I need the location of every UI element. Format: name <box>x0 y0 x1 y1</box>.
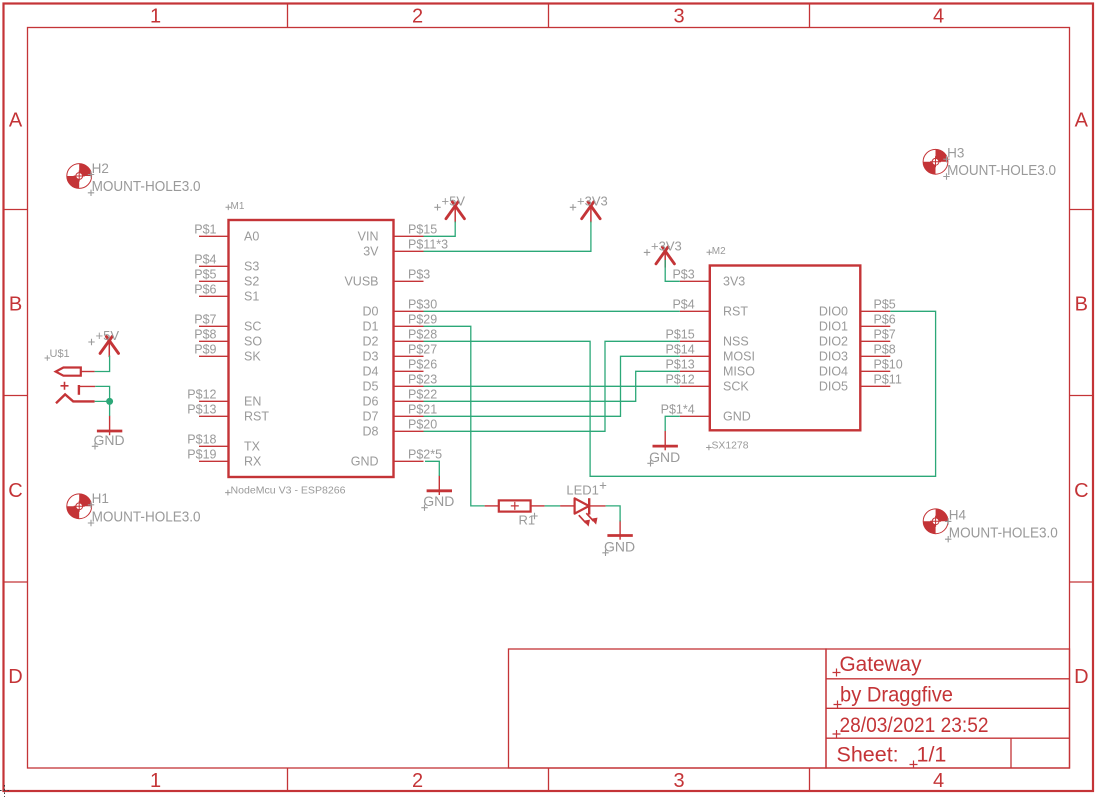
M2 pin SCK (P$12) <box>680 385 710 387</box>
mount hole H4 symbol <box>923 509 948 534</box>
svg-text:P$6: P$6 <box>874 313 896 327</box>
M2 pin MISO (P$13) <box>680 370 710 372</box>
svg-text:P$6: P$6 <box>194 283 216 297</box>
module M1 NodeMcu body <box>229 220 394 477</box>
power symbol +3V3 near M2 3V3 <box>656 247 674 264</box>
svg-text:P$9: P$9 <box>194 343 216 357</box>
svg-text:SO: SO <box>244 335 262 349</box>
svg-text:P$3: P$3 <box>672 268 694 282</box>
svg-text:D4: D4 <box>363 365 379 379</box>
wire M2 3V3 to +3V3 <box>665 260 680 281</box>
M2 pin DIO1 (P$6) <box>860 325 890 327</box>
svg-text:P$13: P$13 <box>187 403 216 417</box>
svg-text:DIO3: DIO3 <box>819 350 848 364</box>
M1 pin S3 (P$4) <box>199 265 229 267</box>
wire M1 D7 to M2 MOSI <box>424 356 680 416</box>
svg-text:P$21: P$21 <box>408 403 437 417</box>
LED1 anode pin stub <box>560 505 575 507</box>
svg-text:P$12: P$12 <box>665 373 694 387</box>
svg-text:P$14: P$14 <box>665 343 694 357</box>
R1 right pin stub <box>531 505 545 507</box>
svg-text:DIO1: DIO1 <box>819 320 848 334</box>
svg-text:RX: RX <box>244 455 262 469</box>
svg-text:RST: RST <box>723 305 748 319</box>
svg-text:3: 3 <box>673 6 684 28</box>
svg-text:GND: GND <box>351 455 379 469</box>
M1 pin S2 (P$5) <box>199 280 229 282</box>
M2 pin GND (P$1*4) <box>680 415 710 417</box>
svg-text:C: C <box>1074 480 1088 502</box>
svg-text:+5V: +5V <box>442 193 466 208</box>
svg-text:B: B <box>9 294 22 316</box>
svg-text:H1: H1 <box>92 491 109 506</box>
svg-text:P$8: P$8 <box>874 343 896 357</box>
svg-text:2: 2 <box>412 6 423 28</box>
svg-text:P$11*3: P$11*3 <box>408 238 448 252</box>
wire M1 D8 to M2 NSS <box>424 341 680 431</box>
svg-text:P$8: P$8 <box>194 328 216 342</box>
svg-text:P$7: P$7 <box>874 328 896 342</box>
M2 pin RST (P$4) <box>680 310 710 312</box>
power symbol +5V near connector U$1 <box>100 337 118 354</box>
M2 pin 3V3 (P$3) <box>680 280 710 282</box>
frame column ticks top <box>287 4 289 28</box>
svg-text:D8: D8 <box>363 425 379 439</box>
svg-text:MISO: MISO <box>723 365 755 379</box>
svg-text:P$3: P$3 <box>408 268 430 282</box>
wire +3V3 to M1 3V <box>424 222 591 252</box>
svg-text:DIO4: DIO4 <box>819 365 848 379</box>
title text Gateway <box>833 669 841 677</box>
LED1 cathode bar <box>588 498 590 514</box>
svg-text:P$1: P$1 <box>194 223 216 237</box>
wire M1 D5 to M2 SCK <box>424 385 680 387</box>
M1 pin D6 (P$22) <box>394 400 424 402</box>
svg-text:P$23: P$23 <box>408 373 437 387</box>
M1 pin D5 (P$23) <box>394 385 424 387</box>
svg-text:D2: D2 <box>363 335 379 349</box>
wire M2 GND pin to ground <box>665 416 680 431</box>
M1 pin VIN (P$15) <box>394 235 424 237</box>
svg-text:DIO2: DIO2 <box>819 335 848 349</box>
svg-text:3: 3 <box>673 770 684 792</box>
title block row line 1 <box>826 678 1070 680</box>
wire M1 D0 to M2 RST <box>424 310 680 312</box>
svg-text:GND: GND <box>723 410 751 424</box>
M1 pin RST (P$13) <box>199 415 229 417</box>
mount hole H2 symbol <box>67 164 92 189</box>
ground symbol below M2 GND pin <box>664 431 666 451</box>
power symbol +3V3 near M1 3V <box>582 202 600 219</box>
svg-text:SC: SC <box>244 320 261 334</box>
U$1 tip pin stub <box>81 371 95 373</box>
M1 pin EN (P$12) <box>199 400 229 402</box>
svg-text:+5V: +5V <box>96 328 120 343</box>
svg-text:P$15: P$15 <box>665 328 694 342</box>
svg-text:H4: H4 <box>949 508 967 523</box>
svg-text:D1: D1 <box>363 320 379 334</box>
frame row ticks left <box>4 209 28 211</box>
svg-text:B: B <box>1075 294 1088 316</box>
svg-text:S3: S3 <box>244 260 259 274</box>
ground symbol below M1 GND pin <box>438 476 440 496</box>
svg-text:TX: TX <box>244 440 261 454</box>
svg-text:U$1: U$1 <box>50 348 70 360</box>
LED1 diode triangle <box>575 498 589 513</box>
svg-text:D7: D7 <box>363 410 379 424</box>
connector U$1 sleeve switch contact <box>56 394 95 403</box>
svg-text:S2: S2 <box>244 275 259 289</box>
wire U$1 ring down to junction <box>95 386 109 401</box>
mount hole H4 labels <box>945 518 951 524</box>
M1 pin RX (P$19) <box>199 460 229 462</box>
resistor R1 body <box>499 500 531 511</box>
svg-text:P$11: P$11 <box>874 373 902 387</box>
svg-text:D0: D0 <box>363 305 379 319</box>
svg-text:P$10: P$10 <box>874 358 903 372</box>
svg-text:S1: S1 <box>244 290 259 304</box>
M1 pin SK (P$9) <box>199 355 229 357</box>
M2 pin DIO3 (P$8) <box>860 355 890 357</box>
svg-text:SX1278: SX1278 <box>712 441 749 452</box>
svg-text:GND: GND <box>423 493 454 509</box>
R1 left pin stub <box>485 505 499 507</box>
connector U$1 name label <box>45 355 51 361</box>
M1 pin S1 (P$6) <box>199 295 229 297</box>
svg-text:P$12: P$12 <box>187 388 216 402</box>
M2 pin MOSI (P$14) <box>680 355 710 357</box>
svg-text:SCK: SCK <box>723 380 749 394</box>
svg-text:MOSI: MOSI <box>723 350 755 364</box>
svg-text:VIN: VIN <box>358 230 379 244</box>
mount hole H3 labels <box>943 156 949 162</box>
svg-text:3V3: 3V3 <box>723 275 745 289</box>
svg-text:MOUNT-HOLE3.0: MOUNT-HOLE3.0 <box>92 509 201 525</box>
svg-text:P$4: P$4 <box>194 253 216 267</box>
svg-text:C: C <box>8 480 22 502</box>
svg-text:P$28: P$28 <box>408 328 437 342</box>
svg-text:P$5: P$5 <box>874 298 896 312</box>
svg-text:MOUNT-HOLE3.0: MOUNT-HOLE3.0 <box>949 526 1058 542</box>
module M1 name label <box>226 205 232 211</box>
svg-text:P$2*5: P$2*5 <box>408 448 442 462</box>
junction dot U$1 ground net <box>106 398 113 405</box>
M1 pin D8 (P$20) <box>394 430 424 432</box>
mount hole H1 labels <box>88 502 94 508</box>
M1 pin A0 (P$1) <box>199 235 229 237</box>
wire M1 D1 to R1 <box>424 326 485 506</box>
M1 pin D0 (P$30) <box>394 310 424 312</box>
svg-text:H3: H3 <box>947 146 964 161</box>
svg-text:D3: D3 <box>363 350 379 364</box>
svg-text:LED1: LED1 <box>566 483 599 498</box>
svg-text:MOUNT-HOLE3.0: MOUNT-HOLE3.0 <box>92 179 201 195</box>
ground symbol below LED1 <box>619 520 621 540</box>
U$1 polarity plus mark <box>61 382 69 390</box>
svg-text:+3V3: +3V3 <box>651 239 682 254</box>
wire M1 D6 to M2 MISO <box>424 371 680 401</box>
svg-text:by Draggfive: by Draggfive <box>840 683 953 707</box>
svg-text:NSS: NSS <box>723 335 749 349</box>
ground symbol below U$1 <box>109 416 111 436</box>
svg-text:R1: R1 <box>519 513 536 528</box>
svg-text:1/1: 1/1 <box>917 743 947 767</box>
wire U$1 sleeve to ground <box>95 401 110 416</box>
svg-text:D: D <box>8 666 22 688</box>
title block row line 3 <box>826 737 1070 739</box>
svg-text:P$15: P$15 <box>408 223 437 237</box>
M1 pin D7 (P$21) <box>394 415 424 417</box>
M2 pin DIO5 (P$11) <box>860 385 890 387</box>
svg-text:4: 4 <box>933 6 944 28</box>
svg-text:NodeMcu V3 - ESP8266: NodeMcu V3 - ESP8266 <box>231 486 346 497</box>
M1 pin D3 (P$27) <box>394 355 424 357</box>
svg-text:VUSB: VUSB <box>344 275 378 289</box>
svg-text:Sheet:: Sheet: <box>837 743 899 767</box>
svg-text:D: D <box>1074 666 1088 688</box>
svg-text:P$27: P$27 <box>408 343 437 357</box>
svg-text:4: 4 <box>933 770 944 792</box>
M1 pin GND (P$2*5) <box>394 460 424 462</box>
svg-text:P$29: P$29 <box>408 313 437 327</box>
svg-text:A: A <box>9 109 23 131</box>
svg-text:+3V3: +3V3 <box>577 193 608 208</box>
mount hole H1 symbol <box>67 494 92 519</box>
svg-text:1: 1 <box>150 6 161 28</box>
M1 pin SC (P$7) <box>199 325 229 327</box>
wire U$1 tip to +5V <box>95 356 110 372</box>
frame row ticks right <box>1070 209 1093 211</box>
svg-text:28/03/2021 23:52: 28/03/2021 23:52 <box>840 713 989 737</box>
resistor R1 origin cross <box>511 502 519 510</box>
M2 pin DIO4 (P$10) <box>860 370 890 372</box>
svg-text:Gateway: Gateway <box>840 652 922 676</box>
M2 pin NSS (P$15) <box>680 340 710 342</box>
M1 pin TX (P$18) <box>199 445 229 447</box>
svg-text:DIO0: DIO0 <box>819 305 848 319</box>
svg-text:DIO5: DIO5 <box>819 380 848 394</box>
M2 pin DIO0 (P$5) <box>860 310 890 312</box>
svg-text:GND: GND <box>93 432 124 448</box>
M1 pin SO (P$8) <box>199 340 229 342</box>
wire +5V to M1 VIN <box>424 222 456 237</box>
svg-text:P$22: P$22 <box>408 388 437 402</box>
M2 pin DIO2 (P$7) <box>860 340 890 342</box>
U$1 ring pin stub <box>79 385 95 387</box>
M1 pin D1 (P$29) <box>394 325 424 327</box>
svg-text:A0: A0 <box>244 230 259 244</box>
wire M1 D2 to M2 DIO0 <box>424 311 936 476</box>
svg-text:3V: 3V <box>363 245 379 259</box>
title block row line 2 <box>826 707 1070 709</box>
module M1 value label NodeMcu V3 - ESP8266 <box>225 490 231 496</box>
M1 pin 3V (P$11*3) <box>394 250 424 252</box>
connector U$1 tip contact <box>56 368 81 376</box>
svg-text:P$13: P$13 <box>665 358 694 372</box>
frame column ticks bottom <box>287 768 289 791</box>
svg-text:A: A <box>1075 109 1089 131</box>
svg-text:2: 2 <box>412 770 423 792</box>
svg-text:H2: H2 <box>92 161 109 176</box>
connector U$1 ring contact <box>78 385 80 395</box>
M1 pin D2 (P$28) <box>394 340 424 342</box>
svg-text:P$5: P$5 <box>194 268 216 282</box>
sheet origin mark <box>0 785 11 797</box>
svg-text:EN: EN <box>244 395 261 409</box>
module M2 value label SX1278 <box>706 445 712 451</box>
wire LED1 cathode to ground <box>606 506 621 522</box>
mount hole H3 symbol <box>923 149 948 174</box>
title block box <box>826 649 1070 768</box>
document box left of title block <box>509 649 827 768</box>
svg-text:GND: GND <box>604 538 635 554</box>
svg-text:P$20: P$20 <box>408 418 437 432</box>
svg-text:M1: M1 <box>231 201 245 212</box>
module M2 name label <box>707 250 713 256</box>
title block sheet cell divider <box>1010 738 1012 768</box>
svg-text:GND: GND <box>649 449 680 465</box>
svg-text:P$4: P$4 <box>672 298 694 312</box>
svg-text:1: 1 <box>150 770 161 792</box>
svg-text:RST: RST <box>244 410 269 424</box>
power symbol +5V near M1 VIN <box>446 202 464 219</box>
LED1 cathode pin stub <box>589 505 605 507</box>
svg-text:P$18: P$18 <box>187 433 216 447</box>
mount hole H2 labels <box>88 171 94 177</box>
svg-text:D6: D6 <box>363 395 379 409</box>
M1 pin D4 (P$26) <box>394 370 424 372</box>
LED1 emission arrows <box>579 513 594 523</box>
wire R1 to LED1 <box>545 505 561 507</box>
svg-text:P$30: P$30 <box>408 298 437 312</box>
title text date 28/03/2021 23:52 <box>833 730 841 738</box>
svg-text:P$7: P$7 <box>194 313 216 327</box>
svg-text:P$1*4: P$1*4 <box>661 403 695 417</box>
svg-text:D5: D5 <box>363 380 379 394</box>
svg-text:SK: SK <box>244 350 261 364</box>
svg-text:M2: M2 <box>712 246 726 257</box>
svg-text:P$26: P$26 <box>408 358 437 372</box>
wire M1 GND pin to ground <box>425 461 439 476</box>
svg-text:P$19: P$19 <box>187 448 216 462</box>
title text by Draggfive <box>834 701 842 709</box>
module M2 SX1278 body <box>710 266 861 431</box>
svg-text:MOUNT-HOLE3.0: MOUNT-HOLE3.0 <box>947 163 1056 179</box>
M1 pin VUSB (P$3) <box>394 280 424 282</box>
